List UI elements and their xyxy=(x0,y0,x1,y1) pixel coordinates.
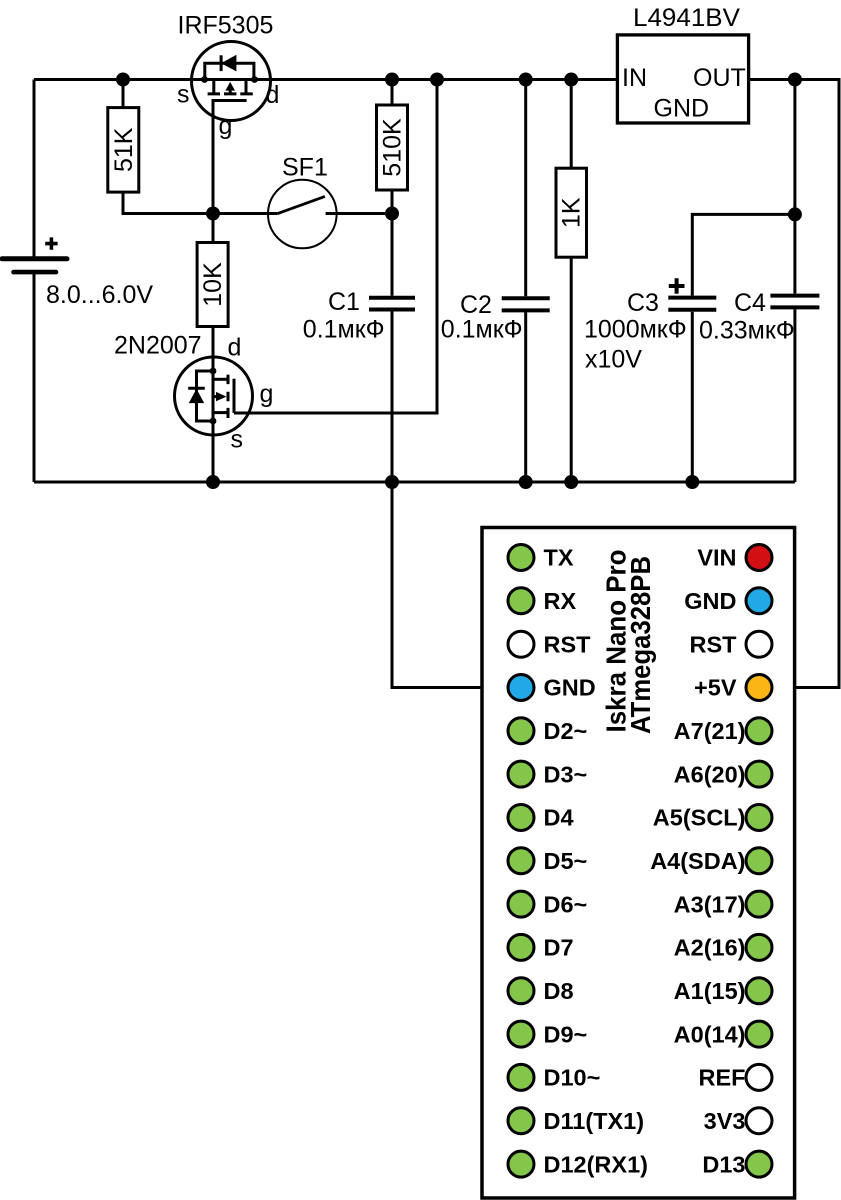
wire battery minus vertical xyxy=(33,274,36,482)
board pin +5V (right row 4) xyxy=(746,675,772,701)
svg-text:A1(15): A1(15) xyxy=(674,978,746,1004)
svg-text:OUT: OUT xyxy=(693,64,746,92)
svg-text:1000мкФ: 1000мкФ xyxy=(584,316,687,344)
board pin RX (left row 2) xyxy=(508,588,534,614)
junction node 9 xyxy=(788,207,802,221)
svg-text:ATmega328PB: ATmega328PB xyxy=(625,556,656,734)
C3 polarity plus xyxy=(669,278,685,294)
board pin D13 (right row 15) xyxy=(746,1151,772,1177)
svg-text:GND: GND xyxy=(684,588,736,614)
svg-text:D13: D13 xyxy=(702,1151,745,1177)
battery positive long plate xyxy=(2,256,67,261)
svg-text:RST: RST xyxy=(544,631,592,657)
svg-text:510K: 510K xyxy=(379,118,407,177)
board pin D4 (left row 7) xyxy=(508,805,534,831)
svg-text:0.1мкФ: 0.1мкФ xyxy=(441,316,523,344)
svg-text:8.0...6.0V: 8.0...6.0V xyxy=(46,281,153,309)
wire Q1 gate lead xyxy=(212,101,215,214)
wire 510K bottom to node B xyxy=(391,190,394,214)
svg-text:VIN: VIN xyxy=(697,545,736,571)
svg-text:C3: C3 xyxy=(627,289,659,317)
svg-text:D7: D7 xyxy=(544,935,574,961)
board pin D10~ (left row 13) xyxy=(508,1064,534,1090)
Iskra Nano Pro board outline xyxy=(482,528,795,1199)
wire node A to 10K and Q2 drain/source column xyxy=(212,214,215,243)
capacitor C4 xyxy=(770,296,819,308)
wire C3 top link to OUT column xyxy=(692,214,795,295)
junction node 14 xyxy=(685,475,699,489)
capacitor C1 xyxy=(369,298,415,310)
Q2 internal node d xyxy=(210,368,217,375)
svg-text:L4941BV: L4941BV xyxy=(633,4,740,32)
wire C4 bottom to ground rail xyxy=(793,309,796,482)
wire C3 bottom to ground rail xyxy=(691,312,694,482)
board pin 3V3 (right row 14) xyxy=(746,1108,772,1134)
wire OUT to right edge and down to +5V pin xyxy=(749,80,839,688)
board pin A0(14) (right row 12) xyxy=(746,1021,772,1047)
svg-text:0.33мкФ: 0.33мкФ xyxy=(699,317,795,345)
junction node 10 xyxy=(206,475,220,489)
resistor R2 510K xyxy=(377,105,408,190)
wire C2 top stub xyxy=(524,80,527,297)
svg-text:C4: C4 xyxy=(734,289,766,317)
wire ground rail xyxy=(34,481,795,484)
transistor Q1 IRF5305 xyxy=(192,42,271,121)
wire 51K top stub xyxy=(122,80,125,108)
board pin REF (right row 13) xyxy=(746,1064,772,1090)
wire SF1 right contact to node B xyxy=(326,212,392,215)
board pin A6(20) (right row 6) xyxy=(746,761,772,787)
wire Q2 gate to riser and up to top rail xyxy=(234,80,437,414)
board pin D6~ (left row 9) xyxy=(508,891,534,917)
svg-text:A2(16): A2(16) xyxy=(674,935,746,961)
switch SF1 circle xyxy=(268,180,337,249)
regulator U1 L4941BV box xyxy=(617,35,748,123)
svg-text:s: s xyxy=(231,426,244,454)
wire 10K bottom through Q2 to ground rail xyxy=(212,327,215,483)
junction node 12 xyxy=(519,475,533,489)
wire 510K top stub xyxy=(391,80,394,106)
switch SF1 lever xyxy=(277,196,325,213)
board pin D9~ (left row 12) xyxy=(508,1021,534,1047)
svg-text:x10V: x10V xyxy=(585,346,642,374)
junction node 7 xyxy=(206,207,220,221)
svg-text:D6~: D6~ xyxy=(544,891,588,917)
Q1 body diode triangle xyxy=(221,55,236,72)
svg-text:A6(20): A6(20) xyxy=(674,761,746,787)
svg-text:A5(SCL): A5(SCL) xyxy=(653,805,746,831)
svg-text:3V3: 3V3 xyxy=(704,1108,746,1134)
Q2 gate arrow right xyxy=(216,392,227,401)
board pin D3~ (left row 6) xyxy=(508,761,534,787)
svg-text:D3~: D3~ xyxy=(544,761,588,787)
wire OUT node down to C4 xyxy=(793,80,796,294)
board pin RST (right row 3) xyxy=(746,631,772,657)
board pin D8 (left row 11) xyxy=(508,978,534,1004)
svg-text:D10~: D10~ xyxy=(544,1065,601,1091)
board pin TX (left row 1) xyxy=(508,545,534,571)
board pin D5~ (left row 8) xyxy=(508,848,534,874)
Q1 internal node d xyxy=(251,76,258,83)
svg-text:10K: 10K xyxy=(199,262,227,307)
svg-text:+5V: +5V xyxy=(694,675,737,701)
svg-text:s: s xyxy=(177,81,190,109)
board pin GND (right row 2) xyxy=(746,588,772,614)
board pin A1(15) (right row 11) xyxy=(746,978,772,1004)
wire battery plus vertical xyxy=(33,80,36,258)
wire C1 bottom plate to ground rail and down to GND pin xyxy=(392,312,508,688)
wire node B to C1 top plate xyxy=(391,214,394,296)
Q2 internal node s xyxy=(210,418,217,425)
board pin VIN (right row 1) xyxy=(746,545,772,571)
board pin D12(RX1) (left row 15) xyxy=(508,1151,534,1177)
junction node 5 xyxy=(564,73,578,87)
svg-text:D4: D4 xyxy=(544,805,574,831)
svg-text:0.1мкФ: 0.1мкФ xyxy=(303,316,385,344)
junction node 1 xyxy=(116,73,130,87)
svg-text:SF1: SF1 xyxy=(282,154,328,182)
svg-text:51K: 51K xyxy=(110,127,138,172)
board pin A2(16) (right row 10) xyxy=(746,934,772,960)
svg-text:1K: 1K xyxy=(558,197,586,228)
svg-text:RX: RX xyxy=(544,588,577,614)
capacitor C2 xyxy=(502,298,550,310)
svg-text:GND: GND xyxy=(544,675,596,701)
svg-text:D9~: D9~ xyxy=(544,1021,588,1047)
Q2 body diode triangle xyxy=(189,389,204,403)
junction node 4 xyxy=(519,73,533,87)
junction node 6 xyxy=(788,73,802,87)
resistor R4 1K xyxy=(556,168,587,257)
board pin D11(TX1) (left row 14) xyxy=(508,1108,534,1134)
svg-text:D8: D8 xyxy=(544,978,574,1004)
Q1 body arrow up xyxy=(225,82,235,91)
svg-text:D11(TX1): D11(TX1) xyxy=(544,1108,645,1134)
svg-text:REF: REF xyxy=(699,1065,746,1091)
wire top +V rail xyxy=(34,78,617,81)
junction node 2 xyxy=(385,73,399,87)
transistor Q2 2N2007 xyxy=(175,357,253,435)
junction node 3 xyxy=(430,73,444,87)
svg-text:A4(SDA): A4(SDA) xyxy=(650,848,745,874)
svg-text:IRF5305: IRF5305 xyxy=(178,12,274,40)
wire 51K bottom to node A xyxy=(123,192,277,214)
svg-text:d: d xyxy=(228,334,242,362)
board pin RST (left row 3) xyxy=(508,631,534,657)
svg-text:D5~: D5~ xyxy=(544,848,588,874)
resistor R3 10K xyxy=(197,243,228,327)
board pin A5(SCL) (right row 7) xyxy=(746,805,772,831)
Q1 internal node s xyxy=(201,76,208,83)
svg-text:A0(14): A0(14) xyxy=(674,1021,746,1047)
junction node 11 xyxy=(385,475,399,489)
svg-text:A7(21): A7(21) xyxy=(674,718,746,744)
battery negative short plate xyxy=(14,270,57,275)
wire C2 bottom to ground rail xyxy=(524,312,527,482)
board pin D7 (left row 10) xyxy=(508,934,534,960)
svg-text:g: g xyxy=(219,112,233,140)
board pin D2~ (left row 5) xyxy=(508,718,534,744)
svg-text:A3(17): A3(17) xyxy=(674,891,746,917)
svg-text:2N2007: 2N2007 xyxy=(114,332,202,360)
svg-text:IN: IN xyxy=(622,64,647,92)
svg-text:RST: RST xyxy=(690,631,738,657)
junction node 13 xyxy=(564,475,578,489)
board pin A3(17) (right row 9) xyxy=(746,891,772,917)
battery plus sign xyxy=(45,237,57,249)
svg-text:g: g xyxy=(260,380,274,408)
junction node 8 xyxy=(385,207,399,221)
wire 1K bottom to ground rail xyxy=(570,257,573,482)
svg-text:TX: TX xyxy=(544,545,574,571)
svg-text:C1: C1 xyxy=(328,288,360,316)
svg-text:d: d xyxy=(266,81,280,109)
capacitor C3 xyxy=(668,298,716,310)
board pin A4(SDA) (right row 8) xyxy=(746,848,772,874)
svg-text:D2~: D2~ xyxy=(544,718,588,744)
svg-text:GND: GND xyxy=(654,94,710,122)
board pin GND (left row 4) xyxy=(508,675,534,701)
resistor R1 51K xyxy=(108,108,139,193)
wire 1K top stub xyxy=(570,80,573,169)
svg-text:D12(RX1): D12(RX1) xyxy=(544,1151,648,1177)
board pin A7(21) (right row 5) xyxy=(746,718,772,744)
